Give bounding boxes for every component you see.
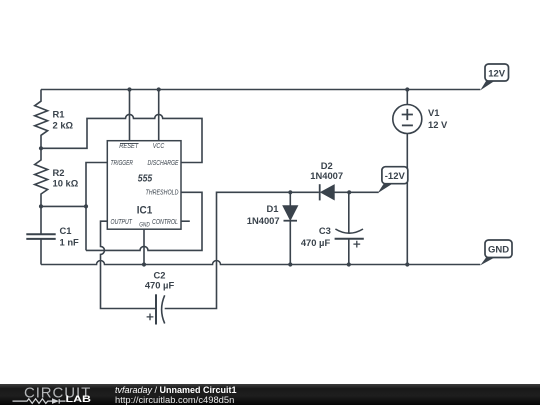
node dot V1 bottom: [405, 262, 409, 266]
node dot R2-C1: [39, 204, 43, 208]
svg-text:C3: C3: [319, 225, 331, 236]
node dot top VCC: [157, 87, 161, 91]
label V1 12 V: [428, 107, 448, 130]
wire OUTPUT pin down with hop, to C2 left: [101, 221, 157, 308]
svg-text:CONTROL: CONTROL: [152, 217, 178, 226]
svg-text:IC1: IC1: [137, 205, 153, 217]
wire R1-R2 junction to DISCHARGE pin: [41, 114, 202, 162]
wire TRIGGER pin stub and vertical: [86, 163, 107, 251]
svg-text:12 V: 12 V: [428, 119, 448, 130]
node dot top V1: [405, 87, 409, 91]
svg-text:2 kΩ: 2 kΩ: [53, 119, 74, 130]
label C3 470 µF: [301, 225, 331, 248]
svg-text:THRESHOLD: THRESHOLD: [146, 188, 180, 197]
svg-text:555: 555: [138, 173, 153, 185]
svg-text:470 µF: 470 µF: [301, 237, 331, 248]
svg-text:GND: GND: [488, 245, 509, 256]
node dot D1 bottom: [288, 262, 292, 266]
pin label RESET (with overline): [119, 141, 138, 150]
svg-text:1N4007: 1N4007: [247, 215, 280, 226]
wire CONTROL pin stub: [181, 220, 190, 222]
wire C2 right to D-wire corner: [165, 192, 319, 308]
net flag GND: [480, 240, 512, 265]
svg-text:V1: V1: [428, 107, 439, 118]
svg-text:10 kΩ: 10 kΩ: [53, 177, 79, 188]
wire +12V top rail: [41, 89, 480, 91]
net flag 12V: [480, 64, 508, 90]
svg-text:D1: D1: [267, 203, 279, 214]
node dot trigger column: [84, 204, 88, 208]
svg-text:12V: 12V: [488, 68, 506, 79]
node dot C3 top: [347, 190, 351, 194]
logo resistor-diode trace: [13, 399, 66, 404]
svg-text:RESET: RESET: [119, 141, 138, 150]
label C2 470 µF: [145, 269, 175, 290]
op-amp-box IC1 555: [107, 141, 181, 230]
wire VCC pin vertical: [158, 90, 160, 141]
svg-text:DISCHARGE: DISCHARGE: [148, 158, 179, 167]
capacitor C1: [26, 206, 55, 264]
resistor R2: [35, 148, 48, 206]
svg-text:VCC: VCC: [153, 141, 165, 150]
wire D2 anode to -12V flag: [334, 191, 378, 193]
label D1 1N4007: [247, 203, 280, 226]
svg-text:1N4007: 1N4007: [310, 170, 343, 181]
wire bottom GND rail with hops: [41, 261, 480, 265]
wire trigger-threshold link with hop over GND pin: [86, 192, 202, 250]
wire D1 branch: [289, 192, 291, 264]
svg-text:GND: GND: [139, 221, 150, 228]
label D2 1N4007: [310, 160, 343, 181]
wire GND pin vertical: [143, 229, 145, 264]
resistor R1: [35, 90, 48, 149]
node dot top RESET: [127, 87, 131, 91]
svg-text:tvfaraday / Unnamed Circuit1: tvfaraday / Unnamed Circuit1: [115, 385, 237, 395]
node dot C3 bottom: [347, 262, 351, 266]
wire RESET pin vertical: [129, 90, 131, 141]
wire C3 branch: [348, 192, 350, 264]
label R2 10 kΩ: [53, 167, 79, 189]
node dot R1-R2: [39, 146, 43, 150]
label R1 2 kΩ: [53, 108, 74, 130]
wire V1 branch: [406, 90, 408, 265]
capacitor C3: [335, 229, 364, 248]
svg-text:LAB: LAB: [66, 394, 92, 404]
svg-text:470 µF: 470 µF: [145, 279, 175, 290]
svg-text:1 nF: 1 nF: [60, 237, 80, 248]
svg-text:-12V: -12V: [385, 171, 406, 182]
svg-text:OUTPUT: OUTPUT: [111, 217, 133, 226]
footer bar: [0, 384, 540, 405]
node dot GND pin bottom: [142, 262, 146, 266]
diode D1: [283, 206, 298, 221]
svg-text:TRIGGER: TRIGGER: [111, 158, 134, 167]
svg-text:C1: C1: [60, 225, 72, 236]
net flag -12V: [378, 167, 408, 193]
svg-text:R2: R2: [53, 167, 65, 178]
wire R2-C1 junction to trigger column: [41, 205, 86, 207]
svg-text:http://circuitlab.com/c498d5n: http://circuitlab.com/c498d5n: [115, 395, 234, 405]
diode D2: [320, 184, 335, 200]
capacitor C2: [147, 294, 165, 324]
svg-text:R1: R1: [53, 108, 65, 119]
voltage source V1: [393, 105, 422, 134]
label C1 1 nF: [60, 225, 80, 248]
node dot D1 top: [288, 190, 292, 194]
